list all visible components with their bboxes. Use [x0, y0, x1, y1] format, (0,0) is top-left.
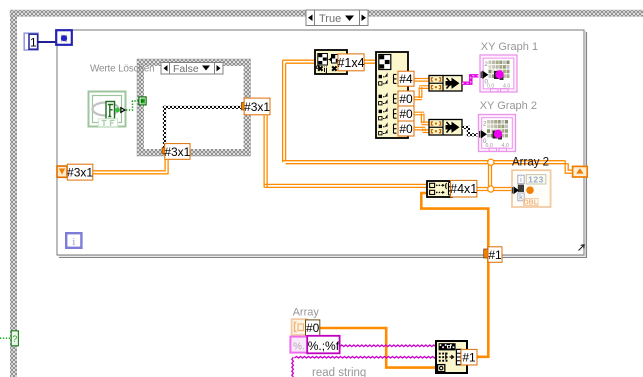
loop resize handle — [579, 245, 585, 251]
selected boolean wire (marching ants) inside case — [163, 106, 244, 109]
tunnel label #3x1 (right) — [244, 98, 270, 115]
svg-text:#0: #0 — [399, 92, 413, 106]
wire index #0 to bundle2 lower — [412, 127, 425, 130]
boolean tunnel on inner case — [139, 97, 146, 105]
case selector terminal ? — [11, 331, 18, 346]
Spreadsheet String To Array node — [436, 341, 467, 373]
svg-text:k: k — [519, 193, 523, 202]
First Call? node — [89, 92, 126, 127]
svg-text:XY Graph 2: XY Graph 2 — [480, 100, 537, 112]
svg-text:#0: #0 — [399, 107, 413, 121]
wire 2D array: Build Array output network — [477, 188, 513, 191]
svg-text:Werte Löschen: Werte Löschen — [90, 63, 154, 74]
tunnel on inner case right — [241, 102, 245, 110]
for loop border — [57, 30, 587, 258]
Array constant (faded) — [292, 319, 308, 335]
XY Graph 1 terminal — [480, 55, 517, 92]
wire boolean dotted to selector — [0, 337, 11, 339]
reshape label #1x4 — [337, 54, 364, 71]
svg-text:#1: #1 — [462, 351, 476, 365]
Bundle node 2 — [429, 120, 462, 136]
selected wire bundle2 to XY Graph 2 — [462, 126, 470, 129]
left shift register label #3x1 — [67, 164, 93, 180]
Bundle node 1 — [429, 76, 462, 92]
wire: loop bottom tunnel to Build Array input — [421, 193, 488, 252]
Index Array node — [376, 52, 408, 138]
left shift register — [57, 166, 67, 177]
string wire zigzag 2 — [295, 356, 437, 358]
wire 2D array: left SR to inner case bottom tunnel — [93, 159, 168, 174]
numeric constant 1 — [24, 33, 38, 50]
array element label #0 — [306, 320, 320, 336]
wire 2D array: inner case right tunnel down to Build Array — [264, 115, 267, 188]
wire boolean dotted First Call to tunnel — [126, 101, 139, 110]
node output label #1 — [461, 349, 477, 365]
wire 2D array: reshape out to index array — [364, 60, 377, 63]
index array output labels — [398, 71, 414, 86]
inner case structure border (False case) — [137, 59, 251, 156]
string wire zigzag vertical — [292, 357, 294, 377]
svg-text:Array 2: Array 2 — [512, 156, 549, 168]
Reshape Array node — [315, 50, 347, 74]
wire: array const #0 to node — [320, 328, 436, 368]
svg-text:i: i — [72, 236, 75, 248]
wire: string-to-array node output up to loop tunnel — [477, 256, 488, 357]
svg-text:#0: #0 — [399, 122, 413, 136]
svg-text:1: 1 — [30, 36, 37, 50]
right shift register — [573, 166, 588, 177]
svg-text:%.;%f: %.;%f — [308, 339, 340, 353]
cluster wire bundle1 to XY Graph 1 — [462, 76, 479, 83]
svg-text:ij: ij — [324, 67, 328, 74]
svg-text:123: 123 — [528, 174, 544, 184]
svg-text:read string: read string — [312, 367, 366, 377]
string label %.;%f — [307, 336, 340, 354]
loop iteration terminal i — [66, 233, 81, 248]
XY Graph 2 terminal — [479, 115, 516, 152]
string constant %.;%f (faded part) — [290, 337, 307, 353]
wire index #0 to bundle1 — [412, 97, 422, 100]
wire index #4 to bundle1 — [412, 79, 429, 82]
svg-text:#1: #1 — [488, 248, 502, 262]
svg-text:False: False — [173, 63, 199, 75]
svg-text:#4: #4 — [399, 72, 413, 86]
loop bottom tunnel — [484, 249, 489, 258]
svg-text:DBL: DBL — [524, 200, 539, 207]
svg-text:#3x1: #3x1 — [67, 165, 93, 179]
tunnel on inner case bottom — [162, 148, 167, 154]
svg-text:XY Graph 1: XY Graph 1 — [481, 41, 538, 53]
case selector label True — [306, 10, 368, 26]
svg-text:?: ? — [12, 334, 17, 344]
loop count terminal N — [56, 30, 72, 45]
Build Array node — [427, 181, 452, 197]
tunnel label #3x1 (bottom) — [164, 144, 190, 160]
svg-text:#4x1: #4x1 — [450, 182, 477, 196]
svg-text:#3x1: #3x1 — [244, 100, 270, 114]
svg-text:#1x4: #1x4 — [337, 56, 364, 70]
wire index #0 to bundle2 — [412, 112, 424, 115]
Array 2 indicator terminal — [512, 170, 551, 207]
wire junction dots (selected) — [488, 159, 494, 165]
svg-text:#3x1: #3x1 — [164, 145, 190, 159]
svg-text:%.: %. — [293, 341, 305, 352]
svg-text:#0: #0 — [306, 321, 320, 335]
wire I32 const to N terminal — [38, 41, 56, 43]
loop bottom tunnel label #1 — [488, 247, 502, 262]
string wire zigzag 1 — [340, 345, 436, 347]
svg-text:True: True — [319, 13, 341, 25]
inner case selector label False — [161, 63, 223, 75]
svg-text:Array: Array — [293, 307, 320, 319]
build array label #4x1 — [450, 180, 477, 197]
